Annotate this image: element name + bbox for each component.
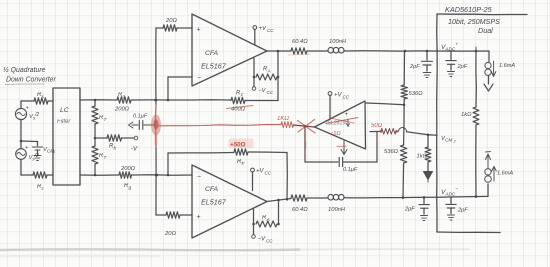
svg-text:EL5167: EL5167	[201, 62, 227, 71]
svg-text:100nH: 100nH	[328, 207, 346, 213]
svg-text:CC: CC	[267, 28, 274, 33]
svg-text:0.1μF: 0.1μF	[343, 167, 358, 173]
svg-text:Filter: Filter	[57, 119, 71, 125]
svg-text:−V: −V	[258, 88, 267, 94]
svg-text:½ Quadrature: ½ Quadrature	[3, 66, 46, 74]
svg-text:✓5Ω: ✓5Ω	[329, 131, 341, 137]
svg-text:+: +	[345, 111, 349, 118]
svg-text:60.4Ω: 60.4Ω	[292, 207, 308, 213]
svg-text:LC: LC	[60, 107, 69, 114]
svg-text:50Ω: 50Ω	[371, 123, 383, 129]
svg-text:VCM: VCM	[441, 136, 452, 143]
svg-text:+: +	[197, 214, 201, 221]
svg-text:200Ω: 200Ω	[114, 107, 130, 113]
svg-text:+50Ω: +50Ω	[230, 142, 245, 149]
svg-text:2pF: 2pF	[409, 64, 420, 70]
svg-text:536Ω: 536Ω	[384, 149, 399, 155]
svg-text:1.6mA: 1.6mA	[497, 171, 513, 177]
svg-text:EL5167: EL5167	[201, 198, 227, 207]
svg-text:+: +	[197, 27, 201, 34]
svg-text:1kΩ: 1kΩ	[461, 112, 472, 118]
svg-text:CC: CC	[267, 90, 274, 95]
svg-text:−: −	[197, 174, 201, 181]
svg-text:g: g	[123, 94, 126, 99]
svg-text:CC: CC	[266, 239, 273, 244]
svg-text:60.4Ω: 60.4Ω	[292, 39, 308, 45]
svg-text:/2: /2	[34, 153, 39, 159]
svg-text:+V: +V	[259, 26, 268, 32]
svg-text:CC: CC	[265, 171, 272, 176]
svg-text:536Ω: 536Ω	[409, 91, 424, 97]
svg-text:−: −	[197, 75, 201, 82]
svg-text:2pF: 2pF	[457, 208, 468, 214]
svg-text:Down Converter: Down Converter	[6, 77, 56, 84]
svg-text:CFA: CFA	[205, 50, 219, 57]
svg-text:A: A	[267, 69, 271, 74]
svg-text:+V: +V	[334, 93, 343, 99]
svg-text:A: A	[266, 217, 270, 222]
svg-text:1KΩ: 1KΩ	[277, 116, 289, 122]
svg-text:20Ω: 20Ω	[164, 231, 176, 237]
svg-text:+V: +V	[256, 169, 265, 175]
svg-text:200Ω: 200Ω	[120, 166, 136, 172]
svg-text:CC: CC	[343, 95, 350, 100]
svg-text:1kΩ: 1kΩ	[417, 154, 428, 160]
svg-text:1.6mA: 1.6mA	[499, 63, 515, 69]
svg-text:KAD5610P-25: KAD5610P-25	[445, 5, 493, 14]
svg-text:2pF: 2pF	[457, 64, 468, 70]
svg-text:10bit, 250MSPS: 10bit, 250MSPS	[448, 17, 500, 26]
svg-text:/2: /2	[34, 112, 39, 118]
svg-text:b: b	[114, 146, 117, 151]
svg-text:Dual: Dual	[478, 26, 493, 35]
svg-text:-V: -V	[131, 147, 138, 153]
svg-text:20Ω: 20Ω	[165, 18, 177, 24]
svg-text:CFA: CFA	[205, 186, 219, 193]
svg-text:g: g	[129, 185, 132, 190]
svg-text:−V: −V	[258, 237, 267, 243]
svg-text:0.1μF: 0.1μF	[133, 114, 148, 120]
svg-text:2pF: 2pF	[404, 207, 415, 213]
svg-text:100nH: 100nH	[329, 39, 347, 45]
